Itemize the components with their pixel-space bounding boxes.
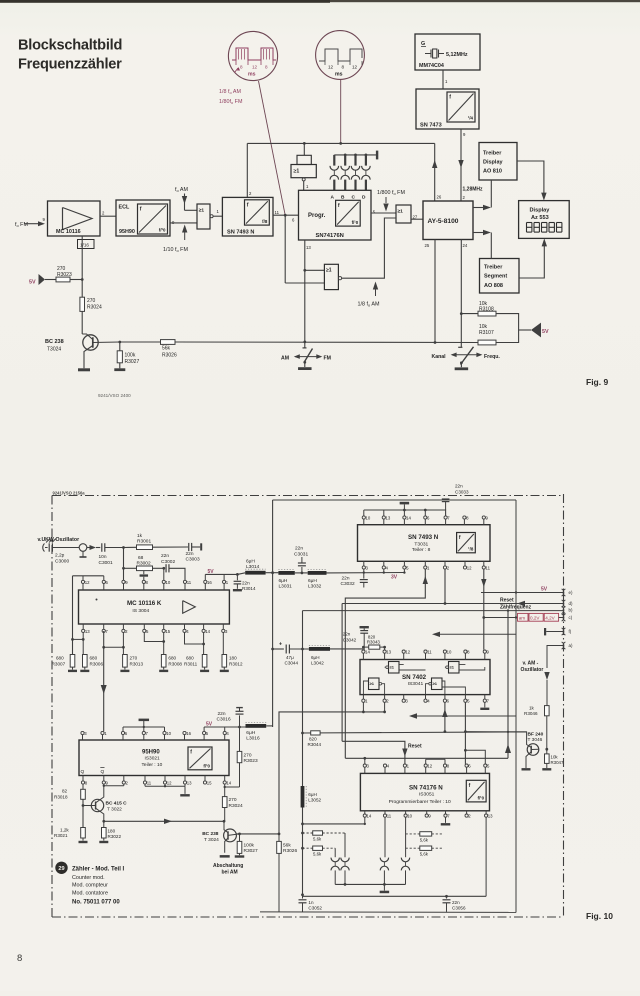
svg-text:C3044: C3044 — [285, 660, 299, 665]
svg-text:C3052: C3052 — [308, 905, 322, 910]
svg-text:C3001: C3001 — [99, 560, 113, 566]
svg-text:f/8: f/8 — [262, 219, 268, 224]
ground SN7402 pin7 — [484, 702, 486, 707]
driver Treiber Segment AO 808 — [480, 259, 520, 294]
svg-text:R3044: R3044 — [308, 742, 322, 747]
svg-text:T3031: T3031 — [414, 541, 428, 547]
svg-text:R3008: R3008 — [168, 661, 182, 666]
svg-text:≥1: ≥1 — [398, 209, 404, 215]
ground pin7 SN74176N — [445, 817, 447, 823]
svg-text:16: 16 — [186, 731, 191, 736]
inner shield border fig10 — [273, 499, 516, 501]
svg-text:Az 553: Az 553 — [531, 215, 549, 221]
wire pin13 down to C3056 rail — [485, 817, 487, 896]
capacitor C3031 22n — [301, 567, 303, 573]
svg-text:Programmierbarer Teiler : 10: Programmierbarer Teiler : 10 — [389, 799, 451, 805]
gate U4 >=1 to AY-5-8100 — [396, 205, 411, 223]
svg-text:4,2V: 4,2V — [545, 616, 555, 621]
module border dash-dot fig10 — [52, 495, 564, 497]
label 1/10 fo FM with arrow — [182, 225, 187, 233]
svg-text:Reset: Reset — [500, 597, 514, 603]
riser pin3 — [364, 758, 366, 764]
connector row A B C D above SN74176N — [334, 154, 377, 156]
resistor R3006 680 — [83, 655, 88, 668]
svg-text:1k: 1k — [137, 533, 143, 539]
node main input — [122, 546, 125, 549]
svg-text:R3012: R3012 — [229, 661, 243, 666]
svg-text:22n: 22n — [455, 484, 463, 489]
capacitor C3016 22n — [239, 715, 241, 727]
IC MC 10116 K IS 3004 — [79, 590, 230, 624]
svg-text:12: 12 — [328, 65, 334, 70]
svg-text:Frequ.: Frequ. — [484, 354, 500, 360]
inductor L3032 6uH — [308, 571, 327, 575]
svg-text:6μH: 6μH — [308, 792, 317, 797]
svg-text:11: 11 — [147, 780, 152, 785]
display Az 553 — [519, 201, 570, 239]
divider ECL 95H90 — [116, 200, 170, 236]
svg-text:f/¹0: f/¹0 — [352, 220, 359, 225]
ground tap on R3002 line — [143, 571, 145, 574]
svg-text:56k: 56k — [283, 842, 291, 848]
wire SN7493 pin11 down to SN7402 pin9 — [483, 569, 485, 650]
label 1/8 fo AM with arrow — [373, 282, 378, 290]
svg-text:fo FM: fo FM — [15, 222, 28, 228]
wire AO810 to display — [517, 161, 544, 193]
svg-text:1/16: 1/16 — [80, 242, 89, 247]
svg-text:SN 74176 N: SN 74176 N — [409, 785, 443, 792]
wire magenta from T1 to node at SN74176N input — [259, 81, 286, 215]
svg-text:IS3021: IS3021 — [145, 756, 161, 762]
svg-text:≥1: ≥1 — [370, 681, 375, 686]
svg-text:R3014: R3014 — [242, 586, 256, 591]
MC10116K top pins — [81, 580, 84, 583]
svg-text:10: 10 — [166, 731, 171, 736]
counter AY-5-8100 — [423, 201, 473, 240]
svg-text:R3027: R3027 — [125, 359, 140, 365]
svg-text:FM: FM — [324, 356, 332, 362]
svg-text:1/10 fo FM: 1/10 fo FM — [163, 247, 188, 253]
NOR gate C inside SN7402 — [369, 678, 380, 690]
wire pin14 95H90 to R3024 — [224, 784, 226, 787]
SN7493N fig10 top pins — [362, 516, 365, 519]
svg-text:16: 16 — [207, 580, 212, 585]
svg-text:ECL: ECL — [119, 205, 130, 211]
svg-text:f: f — [449, 95, 451, 101]
svg-text:T 3024: T 3024 — [204, 837, 219, 843]
svg-text:R3026: R3026 — [162, 353, 177, 359]
wire SN7402 pin1 pin2 to lower left chain — [362, 702, 364, 712]
svg-text:25: 25 — [425, 243, 430, 248]
resistor R3046 1k — [545, 706, 550, 716]
svg-text:BC 415 C: BC 415 C — [106, 801, 128, 807]
svg-text:R3047: R3047 — [551, 760, 564, 765]
wire pin5 to pin15 — [144, 633, 163, 642]
driver Treiber Display AO 810 — [479, 143, 517, 181]
svg-text:13: 13 — [85, 629, 90, 634]
svg-text:Display: Display — [483, 160, 504, 166]
svg-text:9241/VSO 2156a: 9241/VSO 2156a — [53, 490, 86, 495]
svg-text:AO 808: AO 808 — [484, 283, 503, 289]
resistor R3022 180 — [102, 820, 105, 823]
svg-text:f: f — [247, 202, 249, 208]
svg-text:R3023: R3023 — [244, 758, 258, 764]
svg-text:14: 14 — [226, 780, 231, 785]
svg-text:1k: 1k — [529, 705, 535, 710]
svg-text:¹/8: ¹/8 — [468, 547, 474, 552]
svg-text:47μ: 47μ — [286, 655, 294, 660]
svg-text:1,28MHz: 1,28MHz — [463, 187, 484, 193]
trimmer capacitor C3000 2,2p — [45, 547, 48, 549]
transistor BC 238 T 3024 fig10 — [224, 829, 237, 842]
svg-text:11: 11 — [427, 650, 432, 655]
svg-text:ms: ms — [248, 72, 256, 78]
svg-text:bei AM: bei AM — [222, 869, 238, 875]
svg-text:13: 13 — [488, 814, 493, 819]
svg-text:am: am — [519, 616, 526, 621]
wire 95H90 to gate U2 — [170, 222, 197, 224]
resistor R3018 82 — [82, 784, 84, 789]
resistor R3026 56k fig10 — [278, 833, 281, 836]
svg-text:180: 180 — [108, 828, 116, 833]
capacitor C3002 22n — [165, 564, 167, 572]
svg-text:6μH: 6μH — [308, 578, 317, 584]
svg-text:¹/4: ¹/4 — [468, 116, 474, 121]
wire bus down to SN7493N pin 2 — [246, 143, 248, 197]
svg-text:10: 10 — [447, 650, 452, 655]
wire SN7493 pin1 feedback from left — [345, 569, 425, 758]
svg-text:22n: 22n — [295, 546, 303, 552]
svg-text:SN 7493 N: SN 7493 N — [408, 534, 439, 541]
svg-text:R3024: R3024 — [229, 803, 243, 809]
svg-text:C3033: C3033 — [455, 489, 469, 494]
wire pin10 down to connector — [405, 817, 407, 857]
svg-text:C3042: C3042 — [343, 637, 357, 642]
NOR gate A inside SN7402 — [389, 662, 400, 674]
crystal oscillator G 5,12MHz MM74C04 — [415, 34, 480, 70]
divider SN 7473 — [416, 89, 479, 129]
svg-text:SN 7402: SN 7402 — [402, 674, 427, 681]
base chain to R3027 R3026 — [236, 833, 279, 835]
svg-text:8: 8 — [17, 953, 22, 964]
gate U2 >=1 — [197, 204, 210, 229]
timing circle T1 (8-12-8 ms waveform) — [228, 31, 277, 80]
svg-text:Kanal: Kanal — [432, 354, 447, 360]
connector pair columns bottom — [344, 833, 346, 857]
svg-text:b): b) — [569, 608, 573, 613]
svg-text:BF 240: BF 240 — [528, 731, 544, 737]
svg-text:C3003: C3003 — [186, 557, 200, 563]
resistor R3027 100k fig10 — [239, 834, 241, 842]
svg-text:5,12MHz: 5,12MHz — [446, 52, 468, 58]
svg-text:1n: 1n — [308, 900, 314, 905]
svg-text:1/800 fo FM: 1/800 fo FM — [377, 190, 405, 196]
svg-text:6μH: 6μH — [311, 655, 320, 660]
svg-text:3V: 3V — [391, 575, 398, 581]
svg-text:T 3046: T 3046 — [528, 737, 543, 743]
svg-text:R3006: R3006 — [90, 661, 104, 666]
IC SN 74176 N IS3051 — [360, 773, 489, 810]
svg-text:L3052: L3052 — [308, 797, 321, 802]
svg-text:≥1: ≥1 — [433, 681, 438, 686]
wire MC10116K pin7 down to 95H90 pin1 with arrow — [103, 631, 105, 731]
wire pin11 down to connector — [384, 817, 386, 857]
svg-text:L3016: L3016 — [246, 736, 260, 742]
ground under AM/FM switch — [298, 367, 312, 370]
svg-text:R3007: R3007 — [52, 661, 66, 666]
svg-text:R3046: R3046 — [524, 711, 538, 716]
wire crystal to SN7473 pin 1 — [442, 70, 444, 89]
svg-text:9241/VSO 2400: 9241/VSO 2400 — [98, 393, 131, 398]
svg-text:L3031: L3031 — [279, 583, 293, 589]
svg-text:10: 10 — [366, 515, 371, 520]
svg-text:0,2V: 0,2V — [530, 616, 540, 621]
svg-text:≥1: ≥1 — [390, 664, 395, 669]
svg-text:≥1: ≥1 — [199, 208, 205, 214]
pin label 1/16 box — [78, 240, 95, 249]
svg-text:11: 11 — [275, 210, 280, 215]
svg-text:Q: Q — [101, 769, 105, 775]
svg-text:11: 11 — [486, 565, 491, 570]
NOR gate D inside SN7402 — [432, 678, 443, 690]
svg-text:R3013: R3013 — [130, 661, 144, 666]
SN7402 bottom pins — [362, 699, 365, 702]
svg-text:MC 10116: MC 10116 — [56, 229, 81, 235]
svg-text:15: 15 — [207, 780, 212, 785]
ground under BC238 fig9 — [78, 368, 90, 371]
svg-text:12: 12 — [252, 65, 258, 70]
svg-text:R3107: R3107 — [479, 330, 494, 336]
svg-text:1/80fo FM: 1/80fo FM — [219, 99, 243, 105]
rail pins 6,7,10 of 95H90 grounded — [123, 726, 165, 728]
connector pins a-f on border — [563, 589, 565, 596]
divider SN 7493 N fig9 — [222, 197, 273, 236]
95H90 top pins — [81, 731, 84, 734]
IC SN 7402 IS3041 — [360, 660, 490, 695]
SN7493N fig10 bottom pins — [362, 566, 365, 569]
am level annotation boxes 0,2V 4,2V — [484, 617, 518, 619]
svg-text:IS3041: IS3041 — [408, 681, 424, 687]
resistor R3021 1,2k — [81, 828, 86, 839]
resistor R3007 680 — [70, 655, 75, 668]
svg-text:22n: 22n — [186, 551, 194, 557]
svg-text:C3056: C3056 — [452, 905, 466, 910]
svg-text:8: 8 — [342, 65, 345, 70]
wire SN7493N pin 11 to SN74176N pin 6 — [273, 214, 299, 216]
svg-text:29: 29 — [58, 866, 64, 872]
svg-text:f: f — [140, 207, 142, 213]
terminal f — [544, 628, 546, 635]
svg-text:R3001: R3001 — [137, 538, 151, 544]
wire connector a to v.AM-Oszillator input — [547, 646, 564, 669]
wire SN7493 pin2 to reset line — [444, 569, 446, 603]
svg-text:f: f — [338, 203, 340, 209]
svg-text:270: 270 — [87, 298, 96, 304]
svg-text:MC 10116 K: MC 10116 K — [127, 600, 162, 607]
wire AY pin24 down to Kanal switch — [460, 240, 462, 348]
svg-text:10: 10 — [166, 580, 171, 585]
svg-text:MM74C04: MM74C04 — [419, 63, 444, 69]
svg-text:14: 14 — [367, 814, 372, 819]
svg-text:v. AM -: v. AM - — [523, 661, 539, 667]
svg-text:680: 680 — [56, 656, 64, 661]
svg-text:C3000: C3000 — [55, 558, 69, 564]
svg-text:14: 14 — [205, 629, 210, 634]
svg-text:IS 3004: IS 3004 — [132, 608, 149, 614]
svg-text:R3027: R3027 — [244, 848, 258, 854]
svg-text:100k: 100k — [244, 842, 255, 848]
counter Progr. SN74176N fig9 — [299, 190, 372, 240]
wire L3052 node to pin14 — [364, 817, 366, 824]
transistor BC 238 T3024 fig9 — [83, 335, 98, 350]
wire C3000 to jack — [52, 547, 79, 549]
resistor R3012 180 — [222, 633, 224, 655]
svg-text:R3018: R3018 — [54, 794, 68, 799]
jack J1 — [79, 544, 87, 552]
capacitor C3001 10n — [96, 547, 100, 549]
svg-text:v.UKW-Oszillator: v.UKW-Oszillator — [38, 537, 80, 543]
svg-text:R3024: R3024 — [87, 305, 102, 311]
svg-text:5,6k: 5,6k — [420, 852, 429, 857]
svg-text:12: 12 — [167, 780, 172, 785]
svg-text:L3032: L3032 — [308, 583, 322, 589]
wire pin2 to pin9 column — [104, 785, 124, 787]
svg-text:fo AM: fo AM — [175, 187, 188, 193]
svg-text:R3021: R3021 — [54, 833, 68, 838]
svg-text:Q: Q — [81, 769, 85, 775]
svg-text:Frequenzzähler: Frequenzzähler — [18, 57, 122, 73]
SN7402 top pins — [362, 650, 365, 653]
bridge to SN74176N pin5 — [465, 750, 485, 764]
optional resistors 5,6k pair left — [303, 832, 313, 834]
svg-text:BC 238: BC 238 — [45, 339, 64, 345]
wire emitter to BC238 collector with arrow — [104, 820, 224, 822]
wire gate to SN74176N pin 1 — [303, 181, 305, 190]
wire MC10116 to 95H90 — [100, 215, 116, 217]
tap pin10 MC10116K — [163, 568, 165, 580]
svg-text:5V: 5V — [29, 280, 36, 286]
wire input node down to R3002 row — [123, 548, 125, 581]
svg-text:Treiber: Treiber — [483, 151, 502, 157]
svg-text:A: A — [331, 194, 335, 200]
svg-text:13: 13 — [306, 245, 311, 250]
timing circle T2 (12-8-12 ms waveform) — [316, 31, 365, 80]
rail pins 12,6 to R3007 — [82, 576, 84, 580]
wire MC10116 pin1/16 down — [81, 236, 83, 277]
svg-text:10: 10 — [407, 814, 412, 819]
svg-text:AY-5-8100: AY-5-8100 — [428, 218, 459, 225]
grounds of pins 11,12,13 of 95H90 — [144, 784, 146, 786]
svg-text:B: B — [341, 194, 345, 200]
svg-text:Segment: Segment — [484, 274, 507, 280]
svg-text:Blockschaltbild: Blockschaltbild — [18, 38, 122, 54]
resistor R3108 10k — [461, 313, 478, 315]
resistor R3047 10k — [546, 749, 548, 754]
svg-text:1,2k: 1,2k — [60, 827, 69, 832]
svg-text:15: 15 — [165, 629, 170, 634]
svg-text:SN 7473: SN 7473 — [420, 123, 442, 129]
wire pin7 to pin2 row — [104, 646, 124, 648]
resistor R3008 680 — [163, 633, 165, 655]
svg-text:180: 180 — [229, 656, 237, 661]
svg-text:24: 24 — [463, 243, 468, 248]
wire AO808 to display — [519, 246, 544, 278]
svg-text:13: 13 — [386, 650, 391, 655]
svg-text:Fig. 10: Fig. 10 — [586, 911, 613, 921]
wire SN7402 pin5 down to SN74176N pin6 — [464, 702, 466, 764]
svg-text:6μH: 6μH — [279, 578, 288, 584]
svg-text:Display: Display — [530, 208, 551, 214]
svg-text:100k: 100k — [125, 353, 136, 359]
svg-text:C3016: C3016 — [217, 717, 231, 723]
svg-text:≥1: ≥1 — [294, 169, 300, 175]
svg-text:Teiler : 8: Teiler : 8 — [412, 547, 431, 553]
svg-text:Progr.: Progr. — [308, 213, 326, 219]
svg-text:≥1: ≥1 — [326, 268, 332, 274]
wire from T2 down to top bus — [340, 80, 342, 144]
capacitor C3003 22n — [188, 543, 190, 551]
svg-text:680: 680 — [186, 656, 194, 661]
wire bus down to AY-5-8100 pin 26 — [434, 143, 436, 201]
svg-text:T3024: T3024 — [47, 347, 61, 353]
rail over SN7493N grounded — [363, 510, 365, 516]
svg-text:AO 810: AO 810 — [483, 169, 502, 175]
svg-text:12: 12 — [427, 764, 432, 769]
switch Kanal/Frequ — [458, 346, 462, 348]
svg-text:820: 820 — [309, 736, 317, 741]
NOR gate B inside SN7402 — [449, 662, 460, 674]
svg-text:R3002: R3002 — [137, 560, 151, 566]
svg-text:SN74176N: SN74176N — [316, 233, 344, 239]
inductor L3052 6uH vertical — [302, 733, 304, 786]
svg-text:e): e) — [569, 590, 573, 595]
svg-text:22n: 22n — [452, 900, 460, 905]
svg-text:C3031: C3031 — [294, 551, 308, 557]
svg-text:R3011: R3011 — [184, 661, 198, 666]
ground under R3027 fig9 — [114, 368, 125, 371]
MC10116K bottom pins — [82, 629, 85, 632]
svg-text:5V: 5V — [541, 587, 548, 593]
resistor R3011 680 — [203, 633, 205, 655]
svg-text:C3002: C3002 — [161, 559, 175, 565]
resistor R3013 270 — [122, 633, 124, 655]
resistor R3026 56k fig9 — [120, 341, 161, 343]
svg-text:ms: ms — [335, 72, 343, 78]
svg-text:≥1: ≥1 — [450, 664, 455, 669]
electrolytic C3044 47u and inductor L3042 6uH — [273, 648, 284, 650]
svg-text:a): a) — [569, 643, 573, 648]
svg-text:AM: AM — [281, 356, 289, 362]
resistor R3002 68 — [124, 567, 137, 569]
svg-text:R3026: R3026 — [283, 848, 297, 854]
line from gate to Zaehlfrequenz feed — [345, 757, 508, 759]
svg-text:Counter mod.: Counter mod. — [72, 875, 105, 881]
svg-text:14: 14 — [365, 650, 370, 655]
wire AY to AO810 — [473, 207, 484, 209]
svg-text:R3043: R3043 — [367, 640, 380, 645]
svg-text:Mod. contatore: Mod. contatore — [72, 890, 108, 896]
svg-text:Oszillator: Oszillator — [521, 667, 544, 673]
svg-text:12: 12 — [467, 565, 472, 570]
arrow into C3001 — [87, 547, 90, 549]
svg-text:L3042: L3042 — [311, 660, 324, 665]
resistor R3023 270 fig10 — [237, 751, 242, 762]
svg-text:95H90: 95H90 — [119, 229, 135, 235]
svg-text:6μH: 6μH — [246, 559, 255, 565]
95H90 bottom pins — [81, 781, 84, 784]
svg-text:2,2p: 2,2p — [55, 553, 65, 559]
capacitor C3056 22n — [446, 896, 448, 898]
